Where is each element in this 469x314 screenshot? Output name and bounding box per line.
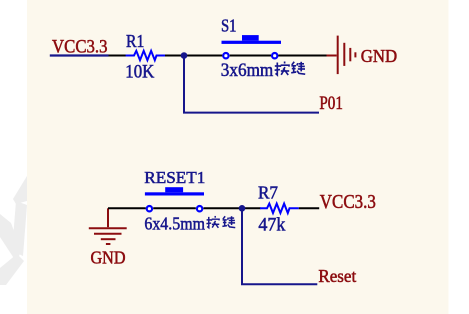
switch S1 right pin circle (272, 53, 277, 58)
wire S1 to GND (278, 55, 327, 57)
junction node B (239, 205, 246, 212)
resistor R1 (126, 51, 165, 60)
junction node A (181, 52, 188, 59)
switch RESET1 knob (165, 187, 183, 192)
switch S1 button plate (222, 41, 282, 44)
svg-text:GND: GND (361, 46, 397, 66)
watermark chevron bottom (0, 254, 24, 285)
svg-text:Reset: Reset (318, 266, 356, 286)
svg-text:R7: R7 (258, 183, 278, 203)
ground GND (top right, horizontal earth) (327, 36, 356, 75)
svg-text:10K: 10K (125, 63, 155, 83)
svg-text:3x6mm: 3x6mm (221, 61, 274, 81)
svg-text:VCC3.3: VCC3.3 (320, 192, 376, 213)
wire R7 to VCC3.3 (299, 207, 319, 209)
wire between S1 pins (230, 55, 271, 57)
resistor R7 (260, 204, 299, 213)
svg-text:6x4.5mm: 6x4.5mm (144, 214, 205, 234)
ground GND (bottom left, earth) (89, 208, 127, 244)
wire GND to RESET1 (108, 207, 146, 209)
wire VCC3.3 to R1 (109, 55, 127, 57)
watermark stripe lower-left band (0, 214, 21, 263)
svg-text:R1: R1 (126, 31, 144, 51)
watermark stripe upper (13, 176, 27, 204)
wire branch junction to P01 (184, 56, 319, 113)
wire branch junction B to Reset (242, 208, 317, 284)
wire R1 to junction to S1 (165, 55, 222, 57)
switch RESET1 left pin circle (147, 206, 152, 211)
wire RESET1 to junction to R7 (203, 207, 260, 209)
svg-text:RESET1: RESET1 (144, 168, 205, 187)
power bar under VCC3.3 (50, 54, 109, 56)
switch S1 knob (242, 35, 259, 41)
wire between RESET1 pins (153, 207, 196, 209)
switch RESET1 button plate (145, 192, 204, 195)
watermark stripe middle (12, 201, 27, 256)
svg-text:P01: P01 (319, 93, 343, 114)
svg-text:GND: GND (91, 247, 126, 267)
switch S1 left pin circle (223, 53, 228, 58)
svg-text:S1: S1 (221, 16, 237, 36)
switch RESET1 right pin circle (197, 206, 202, 211)
svg-text:47k: 47k (258, 214, 285, 235)
